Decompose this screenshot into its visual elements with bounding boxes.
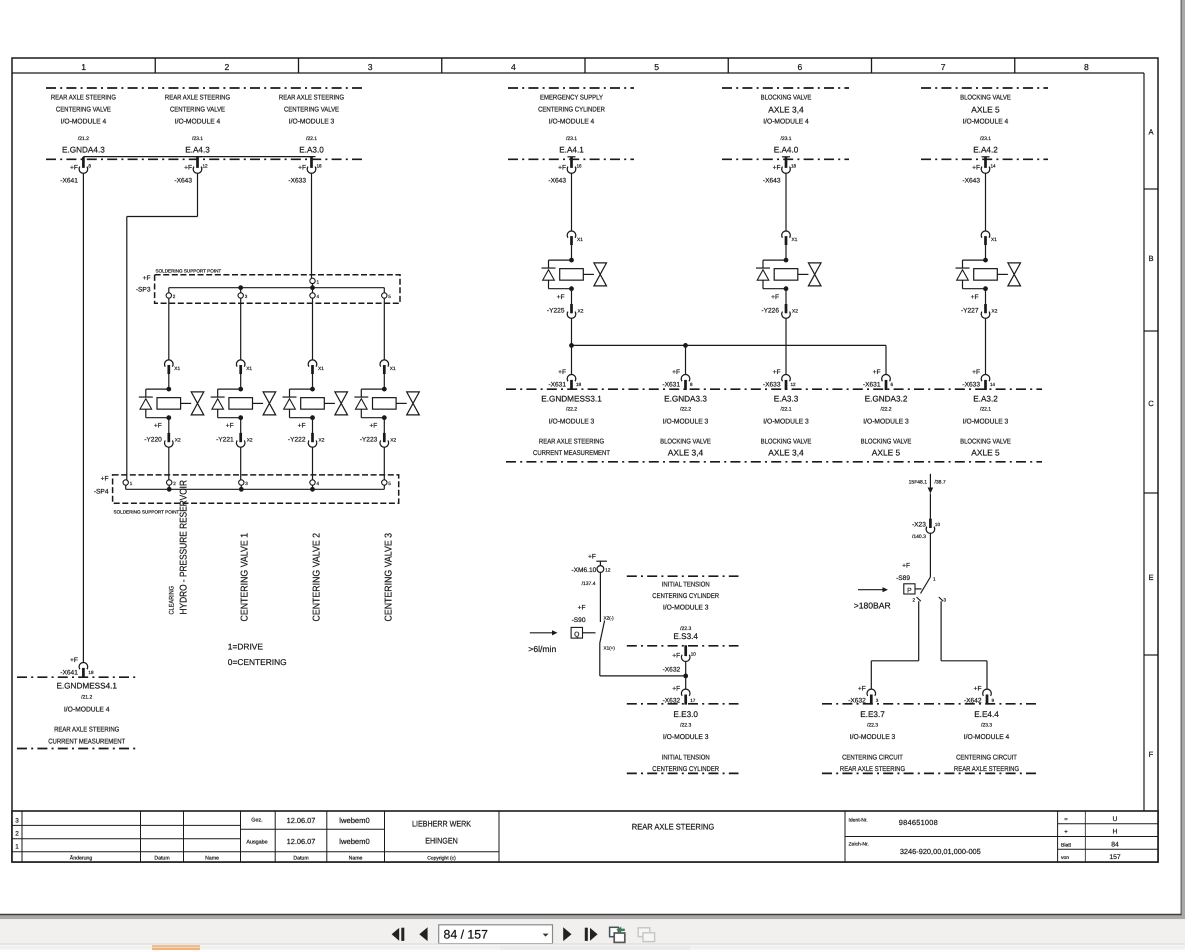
SP3 terminal 1 bbox=[310, 278, 315, 283]
svg-text:+F: +F bbox=[298, 423, 306, 430]
wire SP3 down to -Y220 bbox=[168, 298, 170, 360]
arrow flow direction bbox=[530, 632, 553, 634]
svg-text:+F: +F bbox=[858, 686, 866, 693]
signal row dash-dot (C bottom) bbox=[506, 388, 1042, 390]
node E.GNDMESS4.1 dash-dot bbox=[17, 676, 136, 678]
svg-text:+F: +F bbox=[226, 423, 234, 430]
taskbar sliver bbox=[0, 944, 1185, 950]
svg-text:REAR AXLE STEERING: REAR AXLE STEERING bbox=[840, 766, 905, 773]
connector X2 of -Y223 bbox=[383, 418, 385, 433]
svg-text:/23.1: /23.1 bbox=[980, 136, 991, 142]
SP4 terminal 3 bbox=[239, 480, 244, 485]
svg-text:+F: +F bbox=[70, 657, 78, 664]
svg-text:I/O-MODULE 3: I/O-MODULE 3 bbox=[763, 418, 809, 426]
svg-text:2: 2 bbox=[173, 294, 176, 299]
svg-text:+F: +F bbox=[672, 686, 680, 693]
svg-text:REAR AXLE STEERING: REAR AXLE STEERING bbox=[51, 95, 116, 102]
svg-text:+F: +F bbox=[558, 165, 566, 172]
svg-text:+F: +F bbox=[771, 294, 779, 301]
wire bus corner down to E.GNDA3.2 bbox=[885, 345, 887, 374]
solenoid valve coil -Y220 with suppressor diode bbox=[166, 387, 171, 392]
svg-text:X2: X2 bbox=[792, 308, 798, 314]
solenoid valve coil -Y225 with suppressor diode bbox=[569, 258, 574, 263]
svg-text:-X23: -X23 bbox=[912, 521, 926, 528]
connector X1 of -Y225 bbox=[567, 231, 576, 238]
svg-text:12: 12 bbox=[605, 568, 611, 573]
SP3 bus wire bbox=[169, 287, 384, 289]
wire col2 X643 down with jog to SP4 terminal 1 bbox=[197, 173, 199, 216]
section divider dash-dot (E.A4.2) bbox=[921, 87, 1048, 89]
section divider dash-dot (E.A4.0) bbox=[722, 87, 849, 89]
svg-text:157: 157 bbox=[1109, 854, 1121, 861]
svg-text:BLOCKING VALVE: BLOCKING VALVE bbox=[960, 95, 1011, 102]
svg-text:6: 6 bbox=[797, 62, 802, 72]
svg-text:-Y221: -Y221 bbox=[216, 437, 234, 444]
svg-text:+F: +F bbox=[873, 369, 881, 376]
svg-text:9: 9 bbox=[992, 698, 995, 703]
svg-text:E.GNDA3.2: E.GNDA3.2 bbox=[865, 395, 908, 404]
svg-text:Datum: Datum bbox=[154, 856, 169, 862]
SP4 bus wire bbox=[126, 488, 385, 490]
svg-text:B: B bbox=[1148, 254, 1153, 263]
svg-text:-X633: -X633 bbox=[962, 382, 980, 389]
svg-text:Zeich-Nr.: Zeich-Nr. bbox=[849, 842, 869, 848]
svg-text:/23.3: /23.3 bbox=[981, 723, 992, 729]
svg-text:X1: X1 bbox=[991, 237, 997, 243]
solenoid valve coil -Y221 with suppressor diode bbox=[238, 387, 243, 392]
svg-text:E.A3.2: E.A3.2 bbox=[973, 395, 998, 404]
svg-text:X2: X2 bbox=[319, 438, 325, 444]
svg-text:I/O-MODULE 3: I/O-MODULE 3 bbox=[963, 418, 1009, 426]
wire S89 contact 2 to E.E3.7 bbox=[918, 601, 920, 661]
connector -X643 pin 14 bbox=[982, 156, 990, 158]
svg-text:3: 3 bbox=[876, 698, 879, 703]
svg-text:-Y222: -Y222 bbox=[288, 437, 306, 444]
toolbar icon next view (disabled) bbox=[638, 928, 654, 942]
svg-text:E.A4.3: E.A4.3 bbox=[185, 146, 210, 155]
svg-text:+F: +F bbox=[588, 553, 596, 560]
svg-text:1: 1 bbox=[15, 844, 19, 851]
svg-text:14: 14 bbox=[991, 164, 997, 169]
svg-text:CLEARING: CLEARING bbox=[169, 586, 176, 615]
solenoid valve coil -Y222 with suppressor diode bbox=[310, 387, 315, 392]
svg-text:REAR AXLE STEERING: REAR AXLE STEERING bbox=[54, 727, 119, 734]
svg-text:4: 4 bbox=[317, 481, 320, 486]
svg-text:-X641: -X641 bbox=[60, 669, 78, 676]
wire Y226 down to E.A3.3 bbox=[785, 318, 787, 374]
svg-text:5: 5 bbox=[388, 481, 391, 486]
svg-text:X1: X1 bbox=[792, 237, 798, 243]
svg-text:AXLE 3,4: AXLE 3,4 bbox=[768, 104, 804, 114]
svg-text:-XM6.10: -XM6.10 bbox=[571, 567, 596, 574]
svg-text:-X643: -X643 bbox=[763, 178, 781, 185]
svg-text:-S90: -S90 bbox=[572, 617, 586, 624]
connector -X641 pin 8 bbox=[82, 157, 85, 168]
connector X2 of -Y220 bbox=[168, 418, 170, 433]
svg-text:+F: +F bbox=[369, 423, 377, 430]
svg-text:Name: Name bbox=[205, 856, 219, 862]
svg-text:AXLE 3,4: AXLE 3,4 bbox=[668, 448, 704, 458]
svg-text:=: = bbox=[1064, 817, 1068, 823]
wire down to -Y226 bbox=[785, 173, 787, 231]
svg-text:I/O-MODULE 4: I/O-MODULE 4 bbox=[61, 118, 107, 126]
connector -X642 pin 9 (E.E4.4) bbox=[983, 689, 992, 696]
svg-text:6: 6 bbox=[891, 382, 894, 387]
svg-text:lwebem0: lwebem0 bbox=[339, 837, 369, 846]
svg-text:+F: +F bbox=[773, 165, 781, 172]
svg-text:+F: +F bbox=[184, 165, 192, 172]
svg-text:18: 18 bbox=[791, 164, 797, 169]
svg-text:+F: +F bbox=[557, 294, 565, 301]
svg-text:84 / 157: 84 / 157 bbox=[444, 928, 489, 942]
svg-text:I/O-MODULE 4: I/O-MODULE 4 bbox=[963, 118, 1009, 126]
svg-text:E.A3.3: E.A3.3 bbox=[774, 395, 799, 404]
svg-text:CENTERING VALVE 2: CENTERING VALVE 2 bbox=[311, 533, 322, 622]
svg-text:4: 4 bbox=[511, 62, 516, 72]
solenoid valve coil -Y226 with suppressor diode bbox=[784, 258, 789, 263]
svg-text:AXLE 5: AXLE 5 bbox=[971, 104, 1000, 114]
SP4 terminal 1 bbox=[123, 480, 128, 485]
svg-text:+: + bbox=[1064, 830, 1068, 836]
svg-text:3246-920,00,01,000-005: 3246-920,00,01,000-005 bbox=[900, 847, 981, 856]
toolbar page combobox 84 / 157 bbox=[439, 925, 553, 944]
SP4 terminal 2 bbox=[167, 480, 172, 485]
svg-text:+F: +F bbox=[558, 369, 566, 376]
svg-text:REAR AXLE STEERING: REAR AXLE STEERING bbox=[632, 822, 714, 831]
connector -X643 pin 16 bbox=[568, 156, 576, 158]
svg-text:Ausgabe: Ausgabe bbox=[246, 840, 267, 846]
svg-text:18: 18 bbox=[576, 382, 582, 387]
wire XM6.10 down to S90 contact bbox=[599, 572, 601, 622]
svg-text:12.06.07: 12.06.07 bbox=[287, 837, 316, 846]
wire -Y222 down to SP4 bbox=[312, 447, 314, 480]
svg-text:AXLE 5: AXLE 5 bbox=[971, 448, 1000, 458]
svg-text:/22.1: /22.1 bbox=[306, 136, 317, 142]
svg-text:3: 3 bbox=[245, 481, 248, 486]
svg-text:SOLDERING SUPPORT POINT: SOLDERING SUPPORT POINT bbox=[156, 268, 222, 273]
svg-text:EMERGENCY SUPPLY: EMERGENCY SUPPLY bbox=[540, 95, 603, 102]
svg-text:+F: +F bbox=[972, 165, 980, 172]
wire S89 contact 3 to E.E4.4 bbox=[940, 601, 942, 661]
svg-text:15F48.1: 15F48.1 bbox=[909, 479, 928, 485]
svg-text:/21.2: /21.2 bbox=[81, 695, 92, 701]
svg-text:BLOCKING VALVE: BLOCKING VALVE bbox=[761, 439, 812, 446]
svg-text:X2: X2 bbox=[175, 438, 181, 444]
svg-text:17: 17 bbox=[690, 698, 696, 703]
svg-text:16: 16 bbox=[577, 164, 583, 169]
wire down to -Y225 bbox=[571, 173, 573, 231]
svg-text:X2: X2 bbox=[247, 438, 253, 444]
SP3 terminal 2 bbox=[168, 288, 170, 293]
svg-text:-Y227: -Y227 bbox=[961, 307, 979, 314]
svg-text:+F: +F bbox=[672, 653, 680, 660]
connector X1 of -Y223 bbox=[380, 360, 389, 367]
svg-text:/38.7: /38.7 bbox=[935, 479, 946, 485]
SP3 terminal 3 bbox=[240, 288, 242, 293]
svg-text:0=CENTERING: 0=CENTERING bbox=[228, 657, 287, 667]
svg-text:I/O-MODULE 4: I/O-MODULE 4 bbox=[763, 118, 809, 126]
SP3 junction dots bbox=[238, 285, 243, 290]
svg-text:E.GNDMESS4.1: E.GNDMESS4.1 bbox=[56, 682, 117, 691]
svg-text:I/O-MODULE 3: I/O-MODULE 3 bbox=[549, 418, 595, 426]
svg-text:Gez.: Gez. bbox=[251, 818, 262, 824]
svg-text:CENTERING CYLINDER: CENTERING CYLINDER bbox=[652, 593, 719, 600]
soldering support point -SP4 bbox=[113, 475, 399, 503]
SP3 terminal 4 bbox=[312, 288, 314, 293]
svg-text:CURRENT MEASUREMENT: CURRENT MEASUREMENT bbox=[533, 450, 611, 457]
wire SP3 down to -Y222 bbox=[312, 298, 314, 360]
svg-text:REAR AXLE STEERING: REAR AXLE STEERING bbox=[279, 95, 344, 102]
SP3 terminal 5 bbox=[383, 288, 385, 293]
svg-text:3: 3 bbox=[944, 598, 947, 603]
svg-text:CURRENT MEASUREMENT: CURRENT MEASUREMENT bbox=[48, 739, 126, 746]
connector -X631 pin 6 (E.GNDA3.2) bbox=[882, 374, 891, 381]
svg-text:-Y220: -Y220 bbox=[144, 437, 162, 444]
svg-text:/22.1: /22.1 bbox=[980, 407, 991, 413]
row letter band bbox=[1143, 73, 1145, 811]
svg-text:-X632: -X632 bbox=[663, 667, 681, 674]
connector -X632 pin 17 (E.E3.0) bbox=[681, 689, 690, 696]
svg-text:/137.4: /137.4 bbox=[582, 581, 596, 587]
svg-text:E.A4.0: E.A4.0 bbox=[774, 146, 799, 155]
wire Y225 to ground bus bbox=[571, 318, 573, 374]
connector X2 of -Y227 bbox=[985, 289, 987, 304]
svg-text:I/O-MODULE 3: I/O-MODULE 3 bbox=[863, 418, 909, 426]
svg-text:INITIAL TENSION: INITIAL TENSION bbox=[662, 755, 710, 762]
svg-text:>180BAR: >180BAR bbox=[854, 601, 891, 611]
wire S90 to junction bbox=[599, 644, 601, 676]
connector -X633 pin 14 (E.A3.2) bbox=[981, 374, 990, 381]
connector X2 of -Y225 bbox=[571, 289, 573, 304]
svg-text:/22.2: /22.2 bbox=[566, 407, 577, 413]
connector X1 of -Y220 bbox=[165, 360, 174, 367]
svg-text:Q: Q bbox=[574, 631, 579, 638]
svg-text:H: H bbox=[1113, 829, 1118, 836]
wire -Y220 down to SP4 bbox=[168, 447, 170, 480]
svg-text:Blatt: Blatt bbox=[1061, 843, 1072, 849]
INITIAL TENSION header block bbox=[627, 575, 739, 577]
svg-text:X1(+): X1(+) bbox=[604, 646, 616, 651]
svg-text:CENTERING CYLINDER: CENTERING CYLINDER bbox=[538, 107, 605, 114]
svg-text:REAR AXLE STEERING: REAR AXLE STEERING bbox=[165, 95, 230, 102]
svg-text:Name: Name bbox=[349, 856, 363, 862]
signal rail dash-dot left bbox=[46, 158, 364, 160]
wire -Y223 down to SP4 bbox=[383, 447, 385, 480]
svg-text:2: 2 bbox=[15, 831, 19, 838]
svg-text:CENTERING CYLINDER: CENTERING CYLINDER bbox=[652, 766, 719, 773]
title block bbox=[12, 811, 1158, 862]
svg-text:1: 1 bbox=[130, 481, 133, 486]
svg-text:Copyright (c): Copyright (c) bbox=[427, 856, 456, 862]
svg-text:Änderung: Änderung bbox=[70, 855, 93, 862]
svg-text:/22.2: /22.2 bbox=[680, 407, 691, 413]
svg-text:X1: X1 bbox=[390, 366, 396, 372]
ground bus wire bbox=[572, 344, 887, 346]
svg-text:I/O-MODULE 3: I/O-MODULE 3 bbox=[850, 733, 896, 741]
svg-text:Ident-Nr.: Ident-Nr. bbox=[849, 818, 868, 824]
svg-text:-X643: -X643 bbox=[962, 178, 980, 185]
svg-text:Datum: Datum bbox=[293, 856, 308, 862]
svg-text:+F: +F bbox=[578, 605, 586, 612]
svg-text:-X643: -X643 bbox=[548, 178, 566, 185]
svg-text:12.06.07: 12.06.07 bbox=[287, 816, 316, 825]
svg-text:-X631: -X631 bbox=[662, 382, 680, 389]
toolbar button next page bbox=[563, 927, 571, 941]
svg-text:/21.2: /21.2 bbox=[78, 136, 89, 142]
svg-text:/140.3: /140.3 bbox=[912, 534, 926, 540]
wire bus down to E.GNDA3.3 bbox=[685, 345, 687, 374]
solenoid valve coil -Y223 with suppressor diode bbox=[382, 387, 387, 392]
toolbar button first page bbox=[392, 928, 400, 941]
svg-text:U: U bbox=[1113, 816, 1118, 823]
svg-text:CENTERING VALVE 3: CENTERING VALVE 3 bbox=[383, 532, 394, 621]
svg-text:CENTERING CIRCUIT: CENTERING CIRCUIT bbox=[842, 755, 903, 762]
svg-text:I/O-MODULE 4: I/O-MODULE 4 bbox=[964, 733, 1010, 741]
svg-text:18: 18 bbox=[317, 164, 323, 169]
svg-text:X1: X1 bbox=[174, 366, 180, 372]
wire SP3 down to -Y223 bbox=[383, 298, 385, 360]
svg-text:1: 1 bbox=[933, 577, 936, 582]
svg-text:E.A4.2: E.A4.2 bbox=[973, 146, 998, 155]
svg-text:/22.2: /22.2 bbox=[880, 407, 891, 413]
svg-text:12: 12 bbox=[791, 382, 797, 387]
svg-text:E.S3.4: E.S3.4 bbox=[673, 632, 698, 641]
svg-text:REAR AXLE STEERING: REAR AXLE STEERING bbox=[539, 439, 604, 446]
connector -X643 pin 18 bbox=[782, 156, 790, 158]
svg-text:-X643: -X643 bbox=[174, 178, 192, 185]
svg-text:CENTERING VALVE 1: CENTERING VALVE 1 bbox=[240, 532, 251, 621]
connector -X632 pin 3 (E.E3.7) bbox=[867, 689, 876, 696]
connector X1 of -Y221 bbox=[236, 360, 245, 367]
wire down to -Y227 bbox=[985, 173, 987, 231]
svg-text:2: 2 bbox=[224, 62, 229, 72]
svg-text:CENTERING VALVE: CENTERING VALVE bbox=[284, 107, 339, 114]
svg-text:-Y226: -Y226 bbox=[761, 307, 779, 314]
SP4 terminal 4 bbox=[310, 480, 315, 485]
svg-text:3: 3 bbox=[245, 294, 248, 299]
svg-text:I/O-MODULE 4: I/O-MODULE 4 bbox=[549, 118, 595, 126]
svg-text:E.E4.4: E.E4.4 bbox=[974, 710, 999, 719]
svg-text:1: 1 bbox=[317, 279, 320, 284]
connector -X631 pin 18 (E.GNDMESS3.1) bbox=[567, 374, 576, 381]
svg-text:84: 84 bbox=[1111, 842, 1119, 849]
svg-text:-X631: -X631 bbox=[863, 382, 881, 389]
connector -X633 pin 18 bbox=[308, 156, 316, 158]
svg-text:AXLE 3,4: AXLE 3,4 bbox=[768, 448, 804, 458]
svg-text:X1: X1 bbox=[318, 366, 324, 372]
toolbar button previous page bbox=[419, 927, 427, 941]
SP4 terminal 5 bbox=[382, 480, 387, 485]
arrow pressure direction bbox=[858, 589, 884, 591]
svg-text:BLOCKING VALVE: BLOCKING VALVE bbox=[660, 439, 711, 446]
svg-text:+F: +F bbox=[672, 369, 680, 376]
svg-text:1: 1 bbox=[81, 62, 86, 72]
toolbar button last page bbox=[585, 928, 588, 941]
svg-text:lwebem0: lwebem0 bbox=[339, 816, 369, 825]
svg-text:X1: X1 bbox=[577, 237, 583, 243]
svg-text:F: F bbox=[1149, 750, 1154, 759]
svg-text:-SP3: -SP3 bbox=[136, 287, 151, 294]
svg-text:3: 3 bbox=[15, 817, 19, 824]
wire Y227 down to E.A3.2 bbox=[985, 318, 987, 374]
svg-text:X1: X1 bbox=[246, 366, 252, 372]
svg-text:X2(-): X2(-) bbox=[604, 616, 615, 621]
svg-text:I/O-MODULE 3: I/O-MODULE 3 bbox=[663, 418, 709, 426]
svg-text:4: 4 bbox=[317, 294, 320, 299]
svg-text:+F: +F bbox=[974, 686, 982, 693]
svg-text:E.E3.0: E.E3.0 bbox=[673, 710, 698, 719]
svg-text:E.GNDMESS3.1: E.GNDMESS3.1 bbox=[541, 395, 602, 404]
svg-text:E.A3.0: E.A3.0 bbox=[299, 146, 324, 155]
svg-text:CENTERING VALVE: CENTERING VALVE bbox=[56, 107, 111, 114]
svg-text:+F: +F bbox=[902, 563, 910, 570]
svg-text:I/O-MODULE 4: I/O-MODULE 4 bbox=[175, 118, 221, 126]
svg-text:14: 14 bbox=[990, 382, 996, 387]
svg-text:-SP4: -SP4 bbox=[94, 489, 109, 496]
section divider dash-dot below C row bbox=[506, 461, 1042, 463]
svg-text:SOLDERING SUPPORT POINT: SOLDERING SUPPORT POINT bbox=[114, 510, 180, 515]
svg-text:I/O-MODULE 3: I/O-MODULE 3 bbox=[663, 733, 709, 741]
svg-text:von: von bbox=[1061, 855, 1069, 861]
wire col3 X633 down to SP3 terminal 1 bbox=[311, 173, 313, 278]
svg-text:+F: +F bbox=[298, 165, 306, 172]
wire SP3 down to -Y221 bbox=[240, 298, 242, 360]
svg-text:E.E3.7: E.E3.7 bbox=[860, 710, 885, 719]
svg-text:/23.1: /23.1 bbox=[192, 136, 203, 142]
svg-text:10: 10 bbox=[691, 652, 697, 657]
svg-text:HYDRO - PRESSURE RESERVOIR: HYDRO - PRESSURE RESERVOIR bbox=[178, 480, 189, 614]
svg-text:X2: X2 bbox=[992, 308, 998, 314]
svg-text:-S89: -S89 bbox=[896, 575, 910, 582]
pdf page bottom edge bbox=[0, 914, 1182, 916]
svg-text:CENTERING CIRCUIT: CENTERING CIRCUIT bbox=[956, 755, 1017, 762]
svg-text:EHINGEN: EHINGEN bbox=[425, 837, 458, 846]
svg-text:+F: +F bbox=[70, 165, 78, 172]
svg-text:BLOCKING VALVE: BLOCKING VALVE bbox=[861, 439, 912, 446]
connector X1 of -Y222 bbox=[308, 360, 317, 367]
svg-text:LIEBHERR WERK: LIEBHERR WERK bbox=[412, 820, 471, 829]
svg-text:E.A4.1: E.A4.1 bbox=[559, 146, 584, 155]
solenoid valve coil -Y227 with suppressor diode bbox=[983, 258, 988, 263]
svg-text:I/O-MODULE 3: I/O-MODULE 3 bbox=[289, 118, 335, 126]
toolbar background bbox=[0, 919, 1185, 944]
svg-text:C: C bbox=[1148, 399, 1154, 408]
section divider dash-dot top left bbox=[46, 87, 364, 89]
svg-text:-X631: -X631 bbox=[548, 382, 566, 389]
svg-text:+F: +F bbox=[101, 475, 109, 482]
svg-text:5: 5 bbox=[388, 294, 391, 299]
svg-text:P: P bbox=[907, 587, 912, 594]
connector -X633 pin 12 (E.A3.3) bbox=[782, 374, 791, 381]
svg-text:+F: +F bbox=[773, 369, 781, 376]
wire -Y221 down to SP4 bbox=[240, 447, 242, 480]
svg-text:2: 2 bbox=[913, 598, 916, 603]
svg-text:18: 18 bbox=[88, 670, 94, 675]
svg-text:-X641: -X641 bbox=[60, 178, 78, 185]
svg-text:-X633: -X633 bbox=[288, 178, 306, 185]
connector -X23 pin 10 bbox=[929, 519, 932, 528]
svg-text:3: 3 bbox=[368, 62, 373, 72]
svg-text:>6l/min: >6l/min bbox=[528, 644, 556, 654]
svg-text:-Y223: -Y223 bbox=[360, 437, 378, 444]
svg-text:E: E bbox=[1148, 573, 1153, 582]
svg-text:E.GNDA4.3: E.GNDA4.3 bbox=[62, 146, 105, 155]
svg-text:I/O-MODULE 4: I/O-MODULE 4 bbox=[64, 706, 110, 714]
wire X23 down to S89 bbox=[929, 533, 931, 577]
wire to junction bbox=[685, 662, 687, 689]
svg-text:5: 5 bbox=[654, 62, 659, 72]
svg-text:+F: +F bbox=[154, 423, 162, 430]
